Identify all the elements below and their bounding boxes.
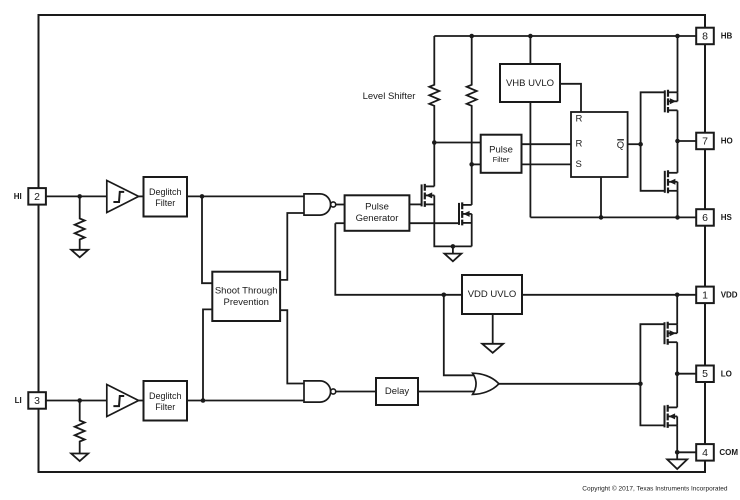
svg-text:Pulse: Pulse: [365, 202, 389, 213]
node Q2 drain junction: [469, 162, 474, 167]
wire LO node down to Q6 drain: [676, 374, 678, 408]
wire Q2 drain up to S line: [471, 164, 473, 205]
gate NAND1 (HI): [304, 194, 331, 215]
wire VDD branch down to OR gate: [444, 295, 477, 376]
svg-text:Delay: Delay: [385, 386, 410, 397]
gate OR1: [473, 373, 499, 394]
node COM: [675, 450, 680, 455]
svg-text:7: 7: [702, 135, 708, 147]
svg-text:2: 2: [34, 191, 40, 203]
node VDD line to OR gate branch: [442, 293, 447, 298]
wire VHB UVLO top feed: [529, 36, 531, 64]
wire VDD UVLO output to pin 1: [522, 294, 696, 296]
svg-text:Shoot Through: Shoot Through: [215, 286, 278, 297]
svg-text:LI: LI: [15, 396, 22, 405]
pin 7 HO: [696, 133, 714, 150]
node HI input junction: [77, 194, 82, 199]
wire deglitch2 output to NAND2: [187, 400, 304, 402]
svg-text:VDD UVLO: VDD UVLO: [468, 289, 517, 300]
pin 6 HS: [696, 209, 714, 226]
node HS rail latch: [599, 215, 604, 220]
resistor R-LI pulldown: [75, 401, 85, 454]
node top rail HO upper FET drain: [675, 34, 680, 39]
latch U2 RS: [571, 112, 628, 177]
wire latch Q output to HO gate bus: [628, 143, 641, 145]
svg-text:HO: HO: [721, 137, 733, 146]
pin 5 LO: [696, 366, 714, 383]
svg-text:R: R: [576, 139, 583, 150]
wire Q5 body tie: [676, 324, 678, 333]
wire Q1 source down: [434, 195, 471, 246]
gate NAND2 (LI): [304, 381, 331, 402]
wire LO node to pin 5: [677, 373, 696, 375]
wire Q2 source down: [471, 214, 473, 247]
wire VDD feed down-left to VDD UVLO line: [335, 223, 462, 295]
wire Q3 drain to HB rail: [677, 36, 679, 92]
wire Q4 body tie: [677, 182, 679, 191]
transistor Q3 HO high-side (P): [665, 90, 678, 113]
pin 2 HI: [28, 188, 46, 205]
block Pulse Generator: [345, 195, 410, 231]
svg-text:VHB UVLO: VHB UVLO: [506, 78, 554, 89]
svg-text:6: 6: [702, 212, 708, 224]
transistor Q4 HO low-side (N): [665, 170, 678, 193]
wire NAND2 output to delay: [336, 391, 376, 393]
node top rail VHB UVLO: [528, 34, 533, 39]
wire LO gate bus: [640, 324, 664, 425]
block VHB UVLO: [500, 64, 560, 102]
node HS rail FET source: [675, 215, 680, 220]
block VDD UVLO: [462, 275, 522, 314]
wire Q5 source down to LO node: [676, 342, 678, 374]
node Q1 drain junction: [432, 140, 437, 145]
transistor Q1 level-shifter left: [422, 184, 435, 207]
node deglitch2 output junction: [201, 398, 206, 403]
schmitt buffer U1 (HI): [107, 181, 139, 213]
block Pulse Filter: [481, 135, 522, 173]
svg-text:Copyright © 2017, Texas Instru: Copyright © 2017, Texas Instruments Inco…: [582, 485, 728, 493]
wire Q6 body tie: [676, 416, 678, 425]
node HO gate bus: [638, 142, 643, 147]
pin 4 COM: [696, 444, 714, 461]
wire delay output to OR gate: [418, 391, 478, 393]
pin 8 HB: [696, 28, 714, 45]
ground (HI pulldown): [71, 250, 88, 257]
wire NAND1 output to pulse generator: [336, 204, 345, 206]
svg-text:Deglitch: Deglitch: [149, 187, 182, 197]
svg-text:8: 8: [702, 30, 708, 42]
wire HO node to pin 7: [678, 140, 697, 142]
wire Q1 drain line to pulse filter: [434, 142, 480, 144]
wire VHB UVLO bottom down to HS rail: [529, 102, 531, 217]
wire STP upper-right to NAND1 lower input: [280, 213, 304, 280]
node LO gate bus: [638, 382, 643, 387]
svg-text:Filter: Filter: [493, 155, 510, 164]
wire Q3 body tie: [677, 92, 679, 101]
block Deglitch Filter (LI): [144, 381, 188, 421]
wire VDD UVLO ground stem: [492, 314, 494, 344]
svg-text:COM: COM: [719, 448, 738, 457]
node LO output: [675, 371, 680, 376]
wire HS rail: [530, 216, 696, 218]
transistor Q6 LO low-side (N): [665, 405, 678, 428]
svg-text:Pulse: Pulse: [489, 144, 513, 155]
schmitt buffer U3 (LI): [107, 385, 139, 417]
node VDD rail LO FET drain: [675, 293, 680, 298]
wire schmitt1 to deglitch1: [139, 195, 144, 197]
ground (level shifter): [452, 246, 454, 253]
wire pulse generator output 2 to level-shifter FET2 gate: [409, 222, 459, 224]
wire HO node down to Q4 drain: [677, 141, 679, 173]
wire Q1 drain up to pulse filter line: [433, 143, 435, 187]
svg-text:4: 4: [702, 447, 708, 459]
resistor R-LS1 level shifter: [429, 36, 439, 143]
ground (LI pulldown): [71, 454, 88, 462]
node deglitch1 output junction: [200, 194, 205, 199]
wire Q3 source down to HO node: [677, 110, 679, 141]
wire COM node to pin 4: [677, 451, 696, 453]
ground (COM): [676, 452, 678, 459]
svg-text:LO: LO: [721, 370, 732, 379]
wire HO gate bus: [641, 92, 665, 191]
wire HB top rail: [434, 35, 696, 37]
block Deglitch Filter (HI): [144, 177, 188, 217]
block Shoot Through Prevention: [212, 272, 280, 321]
wire Q5 drain to VDD rail: [676, 295, 678, 324]
wire junction down to shoot-through-prevention upper-left: [202, 196, 212, 283]
svg-text:5: 5: [702, 368, 708, 380]
wire VHB UVLO output to latch top R: [560, 84, 581, 112]
wire Q4 source down to HS rail: [677, 191, 679, 218]
wire OR output to LO gate bus: [499, 383, 641, 385]
svg-text:3: 3: [34, 395, 40, 407]
wire pulse filter lower output to latch S: [522, 163, 572, 165]
wire pulse generator lower-left stub: [335, 222, 344, 224]
transistor Q2 level-shifter right: [459, 202, 472, 225]
wire pulse filter upper output to latch R: [522, 143, 572, 145]
ground (VDD UVLO): [482, 344, 503, 353]
svg-text:1: 1: [702, 289, 708, 301]
resistor R-LS2 level shifter: [467, 36, 477, 164]
svg-text:Filter: Filter: [155, 402, 175, 412]
block Delay: [376, 378, 418, 405]
node top rail R-LS2: [469, 34, 474, 39]
svg-text:Q: Q: [617, 140, 624, 151]
svg-text:HB: HB: [721, 32, 733, 41]
wire STP lower-left down to LI deglitch junction: [203, 309, 212, 400]
wire schmitt2 to deglitch2: [139, 400, 144, 402]
wire deglitch1 output to NAND1: [187, 195, 304, 197]
svg-text:S: S: [576, 159, 582, 170]
node level shifter source junction: [451, 244, 456, 249]
node HO output: [675, 139, 680, 144]
pin 3 LI: [28, 392, 46, 409]
svg-text:VDD: VDD: [721, 291, 738, 300]
wire Q6 source down to COM node: [676, 425, 678, 452]
transistor Q5 LO high-side (P): [665, 322, 678, 345]
pin 1 VDD: [696, 287, 714, 304]
svg-text:Filter: Filter: [155, 198, 175, 208]
wire latch bottom to HS rail: [600, 177, 602, 217]
wire LI input (pin3 to schmitt buffer): [46, 400, 107, 402]
svg-text:Level Shifter: Level Shifter: [363, 91, 416, 102]
wire HI input (pin2 to schmitt buffer): [46, 195, 107, 197]
wire STP lower-right to NAND2 upper input: [280, 310, 304, 383]
svg-text:Generator: Generator: [356, 213, 399, 224]
wire pulse generator output 1 to level-shifter FET1 gate: [409, 203, 421, 205]
node LI input junction: [77, 398, 82, 403]
svg-text:Deglitch: Deglitch: [149, 391, 182, 401]
wire Q2 drain line to pulse filter: [472, 163, 481, 165]
svg-text:R: R: [576, 113, 583, 124]
svg-text:HI: HI: [14, 192, 22, 201]
svg-text:Prevention: Prevention: [223, 297, 268, 308]
resistor R-HI pulldown: [75, 196, 85, 249]
svg-text:HS: HS: [721, 213, 733, 222]
